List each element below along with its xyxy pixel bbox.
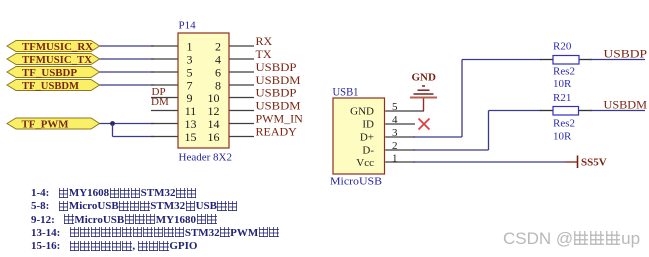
svg-text:DM: DM: [151, 96, 169, 108]
svg-text:R20: R20: [553, 41, 572, 53]
wire R20 to USBDP: [590, 59, 645, 61]
net label TX: [256, 47, 272, 61]
designator USB1: [333, 85, 359, 99]
svg-text:TFMUSIC_RX: TFMUSIC_RX: [22, 41, 93, 53]
svg-text:D-: D-: [362, 145, 374, 157]
svg-text:Vcc: Vcc: [356, 157, 374, 169]
svg-text:10R: 10R: [553, 78, 572, 90]
svg-text:MicroUSB: MicroUSB: [330, 175, 382, 187]
watermark CSDN: [503, 229, 640, 249]
svg-text:TF_USBDM: TF_USBDM: [22, 80, 80, 92]
svg-text:3: 3: [187, 52, 193, 66]
svg-text:14: 14: [208, 117, 220, 131]
wire D+ horizontal: [413, 136, 462, 138]
power port SS5V: [566, 156, 607, 169]
svg-text:1: 1: [187, 39, 193, 53]
net label USBDP: [604, 47, 648, 61]
USB1 pin 1 stub: [385, 161, 415, 163]
pin 2 stub: [229, 45, 254, 47]
pin 5 stub: [151, 71, 178, 73]
svg-text:2: 2: [215, 39, 221, 53]
pin 4 stub: [229, 58, 254, 60]
svg-text:9: 9: [187, 91, 193, 105]
svg-text:ID: ID: [362, 119, 374, 131]
designator R21: [553, 92, 571, 104]
comment Header 8X2: [179, 152, 232, 164]
USB1 pin 4 stub: [385, 123, 415, 125]
svg-text:TFMUSIC_TX: TFMUSIC_TX: [22, 54, 92, 66]
value 10R (R21): [553, 131, 572, 143]
net label DP: [152, 86, 166, 98]
pin 15 stub: [151, 136, 178, 138]
wire Vcc to SS5V: [413, 161, 566, 163]
USB1 pin 2 stub: [385, 149, 415, 151]
designator P14: [179, 20, 197, 32]
wire TFMUSIC_RX to P14 pin1: [100, 45, 155, 47]
pin 9 stub / node DP: [151, 97, 178, 99]
net label USBDM: [604, 98, 648, 112]
P14 pin numbers right column: [208, 39, 222, 144]
svg-text:USBDM: USBDM: [604, 98, 648, 112]
svg-text:1: 1: [392, 153, 398, 165]
svg-text:12: 12: [208, 104, 220, 118]
pin 7 stub: [151, 84, 178, 86]
wire TF_USBDP to P14 pin5: [100, 71, 155, 73]
wire TF_PWM to P14 pin13: [100, 123, 155, 125]
wire D- horizontal: [413, 149, 489, 151]
pin 13 stub: [151, 123, 178, 125]
wire TF_PWM branch to P14 pin15: [113, 136, 155, 138]
net label USBDM pin8: [256, 73, 301, 87]
port TF_USBDM: [7, 80, 100, 93]
svg-text:10: 10: [208, 91, 220, 105]
wire D+ to R20: [462, 59, 541, 61]
pin 8 stub: [229, 84, 254, 86]
svg-text:R21: R21: [553, 92, 571, 104]
svg-text:READY: READY: [256, 125, 298, 139]
svg-text:USBDP: USBDP: [604, 47, 648, 61]
USB1 pin 3 stub: [385, 136, 415, 138]
pin 10 stub: [229, 97, 254, 99]
USB1 pin numbers: [392, 101, 398, 165]
svg-text:Res2: Res2: [553, 66, 575, 78]
svg-text:USBDP: USBDP: [256, 86, 297, 100]
net label DM: [151, 96, 169, 108]
value Res2 (R20): [553, 66, 575, 78]
comment MicroUSB: [330, 175, 382, 187]
port TF_USBDP: [7, 67, 100, 80]
svg-text:USB1: USB1: [333, 85, 359, 99]
port TF_PWM: [7, 118, 100, 131]
connector USB1 body: [333, 98, 385, 174]
resistor R21: [540, 107, 592, 116]
svg-text:6: 6: [215, 65, 221, 79]
pin 1 stub: [151, 45, 178, 47]
pin 3 stub: [151, 58, 178, 60]
pin 14 stub: [229, 123, 254, 125]
P14 pin numbers left column: [185, 39, 197, 144]
svg-text:Header 8X2: Header 8X2: [179, 152, 232, 164]
wire D+ vertical: [461, 60, 463, 138]
pin 6 stub: [229, 71, 254, 73]
pin 11 stub / node DM: [151, 110, 178, 112]
svg-text:13: 13: [185, 117, 197, 131]
value 10R (R20): [553, 78, 572, 90]
port TFMUSIC_TX: [7, 54, 100, 67]
svg-text:Res2: Res2: [553, 118, 575, 130]
svg-text:GND: GND: [412, 72, 437, 84]
USB1 pin names: [350, 106, 374, 170]
wire TF_USBDM to P14 pin7: [100, 84, 155, 86]
svg-text:USBDM: USBDM: [256, 99, 301, 113]
svg-text:P14: P14: [179, 20, 197, 32]
svg-text:5: 5: [187, 65, 193, 79]
svg-text:PWM_IN: PWM_IN: [256, 112, 304, 126]
value Res2 (R21): [553, 118, 575, 130]
pin 16 stub: [229, 136, 254, 138]
net label READY: [256, 125, 298, 139]
net label USBDP pin6: [256, 60, 297, 74]
notes text block: [31, 187, 279, 253]
designator R20: [553, 41, 572, 53]
svg-text:TX: TX: [256, 47, 272, 61]
wire R21 to USBDM: [590, 110, 645, 112]
svg-text:USBDP: USBDP: [256, 60, 297, 74]
svg-text:RX: RX: [256, 34, 273, 48]
port TFMUSIC_RX: [7, 41, 100, 54]
svg-text:TF_USBDP: TF_USBDP: [22, 67, 77, 79]
wire TF_PWM branch down: [112, 124, 114, 137]
svg-text:GND: GND: [350, 106, 374, 118]
USB1 pin 5 stub to GND: [385, 110, 424, 112]
svg-text:4: 4: [215, 52, 221, 66]
wire D- to R21: [489, 110, 542, 112]
net label RX: [256, 34, 273, 48]
wire D- vertical: [488, 111, 490, 151]
svg-text:15: 15: [185, 130, 197, 144]
connector P14 body: [178, 33, 229, 148]
wire TFMUSIC_TX to P14 pin3: [100, 58, 155, 60]
svg-text:SS5V: SS5V: [581, 157, 607, 169]
pin 12 stub: [229, 110, 254, 112]
svg-text:D+: D+: [360, 132, 374, 144]
svg-text:11: 11: [185, 104, 197, 118]
net label PWM_IN: [256, 112, 304, 126]
svg-text:16: 16: [208, 130, 220, 144]
net label USBDM pin12: [256, 99, 301, 113]
ground GND: [410, 72, 437, 112]
no-connect X on pin 4: [419, 119, 430, 130]
svg-text:10R: 10R: [553, 131, 572, 143]
resistor R20: [540, 56, 592, 65]
net label USBDP pin10: [256, 86, 297, 100]
junction TF_PWM branch: [110, 121, 115, 126]
svg-text:TF_PWM: TF_PWM: [22, 119, 70, 131]
